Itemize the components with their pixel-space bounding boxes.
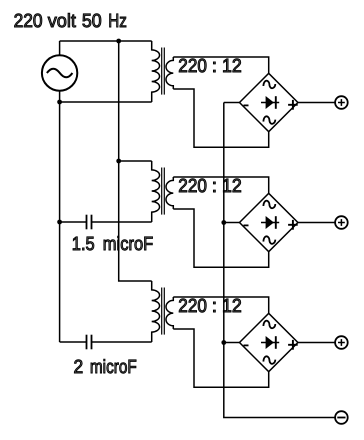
wire: T2 secondary top to bridge AC input: [173, 177, 268, 193]
AC tilde top of bridge B1: [263, 81, 275, 89]
svg-text:2: 2: [74, 357, 84, 378]
ratio label "220 : 12" for T3: [178, 296, 242, 317]
svg-text::: :: [212, 56, 217, 77]
svg-text:50: 50: [82, 11, 102, 32]
positive output terminal 2: [335, 216, 348, 229]
wire: bridge B2 DC- to minus bus: [224, 222, 240, 224]
svg-text:12: 12: [222, 176, 242, 197]
svg-text:220: 220: [178, 296, 207, 317]
transformer T2 primary winding: [152, 161, 160, 222]
transformer T3 core: [162, 288, 165, 335]
AC tilde top of bridge B2: [263, 201, 275, 209]
transformer T3 primary winding: [152, 281, 160, 342]
minus polarity mark of bridge B1: [244, 104, 249, 106]
svg-text::: :: [212, 176, 217, 197]
minus polarity mark of bridge B2: [244, 224, 249, 226]
wire: T1 secondary top to bridge AC input: [173, 57, 268, 73]
positive output terminal 1: [335, 96, 348, 109]
wire: source bottom lead: [59, 91, 61, 102]
wire: T1 secondary bottom to bridge AC input: [173, 89, 268, 147]
wire: left rail down to C2: [59, 102, 61, 342]
svg-text:volt: volt: [48, 11, 77, 32]
junction dot: minus bus / bridge B2: [221, 220, 226, 225]
wire: bridge B3 DC- to minus bus: [224, 342, 240, 344]
svg-text:1.5: 1.5: [72, 234, 95, 255]
plus polarity mark of bridge B1: [288, 100, 298, 110]
value label "1.5 microF" for C1: [72, 234, 153, 255]
svg-text:220: 220: [178, 56, 207, 77]
ratio label "220 : 12" for T2: [178, 176, 242, 197]
diode symbol inside bridge B1: [261, 96, 279, 109]
junction dot: left rail / C1 branch: [57, 220, 62, 225]
svg-text:Hz: Hz: [108, 11, 127, 32]
plus polarity mark of bridge B2: [288, 220, 298, 230]
svg-text::: :: [212, 296, 217, 317]
minus polarity mark of bridge B3: [244, 344, 249, 346]
voltage source V1 label "220 volt 50 Hz": [14, 11, 127, 32]
wire: top rail from source to T1 primary: [60, 40, 152, 42]
junction dot: source bottom node: [57, 100, 62, 105]
svg-text:microF: microF: [90, 357, 137, 378]
diode symbol inside bridge B2: [261, 216, 279, 229]
svg-text:12: 12: [222, 56, 242, 77]
wire: bridge B3 DC+ to output terminal: [298, 342, 335, 344]
diode symbol inside bridge B3: [261, 336, 279, 349]
transformer T1 primary winding: [152, 41, 160, 102]
capacitor C1: [60, 215, 152, 230]
wire: T1 primary bottom return to source: [60, 101, 152, 103]
svg-text:microF: microF: [103, 234, 153, 255]
wire: inner vertical rail down to T3 primary top: [119, 41, 152, 281]
value label "2 microF" for C2: [74, 357, 137, 378]
AC tilde bottom of bridge B1: [263, 116, 275, 124]
wire: T2 secondary bottom to bridge AC input: [173, 209, 268, 267]
AC tilde top of bridge B3: [263, 321, 275, 329]
junction dot: inner rail / T2 primary top branch: [116, 159, 121, 164]
bridge rectifier B1 body: [240, 73, 298, 131]
wire: bridge B1 DC- to minus bus: [224, 102, 240, 104]
svg-text:220: 220: [178, 176, 207, 197]
transformer T2 core: [162, 168, 165, 215]
AC voltage source V1: [42, 55, 77, 90]
wire: minus bus down to negative terminal: [224, 103, 335, 418]
svg-text:12: 12: [222, 296, 242, 317]
AC tilde bottom of bridge B3: [263, 356, 275, 364]
junction dot: minus bus / bridge B3: [221, 340, 226, 345]
wire: T3 secondary top to bridge AC input: [173, 297, 268, 313]
ratio label "220 : 12" for T1: [178, 56, 242, 77]
wire: bridge B1 DC+ to output terminal: [298, 102, 335, 104]
wire: source top lead: [59, 41, 61, 55]
negative output terminal: [335, 411, 348, 424]
AC tilde bottom of bridge B2: [263, 236, 275, 244]
junction dot: top rail / inner rail: [116, 39, 121, 44]
bridge rectifier B3 body: [240, 313, 298, 371]
wire: branch to T2 primary top: [119, 160, 152, 162]
wire: T3 secondary bottom to bridge AC input: [173, 329, 268, 387]
wire: bridge B2 DC+ to output terminal: [298, 222, 335, 224]
positive output terminal 3: [335, 336, 348, 349]
svg-text:220: 220: [14, 11, 43, 32]
transformer T3 secondary winding: [166, 297, 173, 329]
capacitor C2: [60, 335, 152, 350]
transformer T2 secondary winding: [166, 177, 173, 209]
transformer T1 core: [162, 48, 165, 95]
transformer T1 secondary winding: [166, 57, 173, 89]
plus polarity mark of bridge B3: [288, 340, 298, 350]
bridge rectifier B2 body: [240, 193, 298, 251]
